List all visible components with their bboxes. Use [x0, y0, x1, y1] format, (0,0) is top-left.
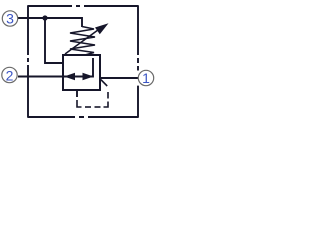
- svg-text:3: 3: [6, 11, 14, 27]
- pilot line dash diagonal to port 1 line: [101, 80, 107, 86]
- port 1: [138, 70, 153, 85]
- pilot line dash with corner at bottom-left: [77, 100, 82, 107]
- node junction dot: [42, 15, 47, 20]
- enclosure boundary top edge: [28, 5, 138, 7]
- wire port 3 to junction and spring corner: [18, 18, 82, 27]
- adjustment arrow: [65, 29, 100, 55]
- wire junction down to valve upper-left port: [45, 18, 63, 63]
- enclosure boundary left edge: [27, 5, 29, 118]
- enclosure boundary right edge: [137, 5, 139, 118]
- flow path arrowhead right: [83, 73, 94, 80]
- wire port 2 line: [18, 76, 63, 78]
- pilot line dash right side: [107, 92, 109, 99]
- pilot line dash bottom 1: [85, 106, 91, 108]
- svg-text:1: 1: [142, 70, 150, 86]
- port 3: [2, 11, 17, 26]
- pilot line dash bottom 2: [95, 106, 101, 108]
- spring: [70, 27, 95, 56]
- enclosure boundary bottom edge: [28, 116, 138, 118]
- valve envelope square: [63, 55, 100, 90]
- svg-text:2: 2: [6, 68, 14, 84]
- flow path line inside valve: [63, 58, 93, 77]
- flow path arrowhead left: [64, 73, 75, 80]
- port 2: [2, 67, 17, 82]
- pilot line solid stub from valve bottom: [76, 90, 78, 97]
- wire port 1 line: [100, 77, 138, 79]
- pilot line dash with corner at bottom-right: [104, 102, 109, 108]
